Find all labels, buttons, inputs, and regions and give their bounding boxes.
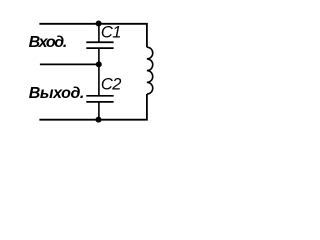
node: middle junction — [96, 61, 102, 67]
wire: input line — [40, 63, 99, 65]
svg-text:C1: C1 — [101, 23, 121, 41]
wire: capacitor branch vertical — [98, 24, 100, 42]
capacitor C1 — [86, 41, 113, 43]
wire: top rail — [39, 24, 146, 47]
capacitor C2 — [86, 95, 113, 97]
wire: right vertical lower — [39, 94, 146, 120]
svg-text:Вход.: Вход. — [29, 34, 67, 51]
node: bottom junction — [96, 117, 102, 123]
inductor L1 coil — [147, 47, 153, 94]
node: top junction — [96, 21, 102, 27]
svg-text:Выход.: Выход. — [29, 85, 84, 102]
svg-text:C2: C2 — [101, 75, 121, 93]
